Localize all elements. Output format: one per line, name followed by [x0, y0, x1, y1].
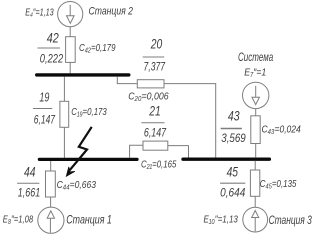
wire C43 to bus 3	[255, 144, 257, 158]
resistor C19	[60, 101, 69, 127]
svg-text:42: 42	[47, 30, 59, 46]
resistor C43	[251, 116, 260, 144]
fraction 43/3,569	[221, 108, 247, 146]
fraction 44/1,661	[17, 164, 40, 200]
wire C19 to bus 2	[63, 127, 65, 158]
source G10 (Станция 3)	[243, 207, 268, 232]
svg-text:19: 19	[39, 91, 49, 105]
wire C21 to bus 3	[168, 146, 189, 158]
svg-text:Е₈″=1,08: Е₈″=1,08	[3, 213, 33, 225]
svg-text:44: 44	[24, 164, 36, 180]
svg-text:0,644: 0,644	[220, 188, 245, 200]
wire C44 to G8	[50, 197, 52, 207]
resistor C44	[46, 171, 56, 197]
svg-text:С₄₃=0,024: С₄₃=0,024	[262, 123, 301, 135]
bus 2 (lower-left busbar)	[39, 158, 137, 161]
fraction 20/7,377	[143, 36, 166, 74]
svg-text:С₄₅=0,135: С₄₅=0,135	[260, 178, 297, 190]
svg-text:45: 45	[227, 164, 239, 180]
bus 1 (upper busbar)	[37, 73, 129, 76]
svg-text:Станция 3: Станция 3	[269, 215, 313, 227]
source G2 (Станция 2)	[58, 2, 83, 27]
svg-text:Е₄″=1,13: Е₄″=1,13	[25, 8, 54, 19]
fraction 19/6,147	[33, 91, 56, 127]
fraction 45/0,644	[220, 164, 245, 200]
wire bus2 to C44	[50, 161, 52, 171]
fraction 21/6,147	[141, 103, 166, 140]
fault lightning bolt	[66, 127, 91, 176]
svg-text:С₁₉=0,173: С₁₉=0,173	[71, 106, 107, 118]
wire bus3 to C45	[254, 161, 256, 170]
svg-text:6,147: 6,147	[34, 115, 56, 127]
svg-text:6,147: 6,147	[144, 128, 167, 140]
wire C20 to bus 3	[164, 84, 216, 158]
fraction 42/0,222	[38, 30, 64, 66]
resistor C20	[137, 80, 164, 88]
resistor C21	[143, 141, 168, 150]
wire C45 to G10	[254, 196, 256, 207]
svg-text:21: 21	[149, 103, 161, 119]
svg-text:С₂₁=0,165: С₂₁=0,165	[141, 158, 176, 170]
svg-text:43: 43	[228, 108, 240, 124]
resistor C45	[250, 170, 259, 196]
svg-text:Е₇″=1: Е₇″=1	[244, 67, 266, 79]
svg-text:С₂₀=0,006: С₂₀=0,006	[128, 90, 169, 102]
wire bus1 to C19	[63, 76, 65, 101]
wire G7 to C43	[255, 109, 257, 116]
svg-text:С₄₄=0,663: С₄₄=0,663	[57, 179, 97, 191]
svg-text:0,222: 0,222	[40, 54, 64, 66]
svg-text:1,661: 1,661	[18, 187, 40, 199]
svg-text:Станция 2: Станция 2	[89, 5, 134, 17]
svg-text:С₄₂=0,179: С₄₂=0,179	[79, 42, 116, 54]
wire bus1 to C20	[117, 76, 137, 83]
resistor C42	[66, 37, 76, 63]
svg-text:3,569: 3,569	[221, 133, 246, 145]
wire G2 to C42	[69, 27, 71, 37]
wire bus2 to C21	[130, 145, 143, 158]
wire C42 to bus 1	[69, 62, 71, 73]
svg-text:Станция 1: Станция 1	[66, 214, 112, 226]
source G7 (Система)	[243, 82, 269, 108]
svg-text:7,377: 7,377	[144, 62, 166, 74]
bus 3 (lower-right busbar)	[183, 158, 269, 161]
source G8 (Станция 1)	[38, 207, 64, 233]
svg-text:20: 20	[150, 36, 162, 52]
svg-text:Система: Система	[238, 52, 273, 64]
svg-text:Е₁₀″=1,13: Е₁₀″=1,13	[204, 214, 239, 226]
